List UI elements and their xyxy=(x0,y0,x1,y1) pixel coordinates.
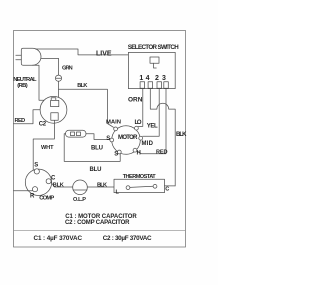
svg-text:C: C xyxy=(51,176,56,182)
svg-text:R: R xyxy=(30,194,35,200)
svg-text:BLK: BLK xyxy=(53,182,64,188)
svg-text:GRN: GRN xyxy=(62,65,73,71)
svg-text:C: C xyxy=(165,186,169,192)
svg-text:SELECTOR SWITCH: SELECTOR SWITCH xyxy=(128,44,179,51)
svg-text:C2 : 30µF 370VAC: C2 : 30µF 370VAC xyxy=(103,235,152,242)
svg-text:2: 2 xyxy=(155,75,159,82)
svg-text:MID: MID xyxy=(142,141,154,147)
svg-text:ORN: ORN xyxy=(128,97,143,104)
svg-text:1: 1 xyxy=(139,75,143,82)
svg-text:WHT: WHT xyxy=(41,145,54,151)
svg-text:LO: LO xyxy=(135,120,142,126)
svg-text:BLK: BLK xyxy=(97,182,107,188)
svg-text:H: H xyxy=(137,150,141,156)
svg-text:C2 : COMP CAPACITOR: C2 : COMP CAPACITOR xyxy=(65,220,130,226)
svg-text:O.L.P: O.L.P xyxy=(73,197,86,203)
svg-text:RED: RED xyxy=(156,149,168,155)
svg-text:3: 3 xyxy=(162,75,166,82)
svg-text:C2: C2 xyxy=(39,121,47,127)
svg-text:BLU: BLU xyxy=(90,167,102,173)
svg-text:RED: RED xyxy=(15,118,26,124)
svg-text:NEUTRAL: NEUTRAL xyxy=(13,77,37,83)
svg-text:4: 4 xyxy=(146,75,150,82)
svg-text:MOTOR: MOTOR xyxy=(118,135,138,141)
svg-text:COMP: COMP xyxy=(39,195,54,201)
svg-text:YEL: YEL xyxy=(147,124,158,130)
svg-text:S: S xyxy=(34,163,38,169)
svg-text:LIVE: LIVE xyxy=(96,50,112,57)
svg-text:(RB): (RB) xyxy=(17,83,28,89)
svg-text:BLK: BLK xyxy=(176,132,187,138)
svg-text:L: L xyxy=(116,189,120,195)
svg-text:C1 : 4µF 370VAC: C1 : 4µF 370VAC xyxy=(34,235,83,242)
svg-text:BLK: BLK xyxy=(77,83,87,89)
svg-text:MAIN: MAIN xyxy=(106,120,121,126)
svg-text:S: S xyxy=(114,152,118,158)
svg-text:S: S xyxy=(106,136,110,142)
svg-text:BLU: BLU xyxy=(91,145,103,151)
svg-text:THERMOSTAT: THERMOSTAT xyxy=(123,174,157,180)
